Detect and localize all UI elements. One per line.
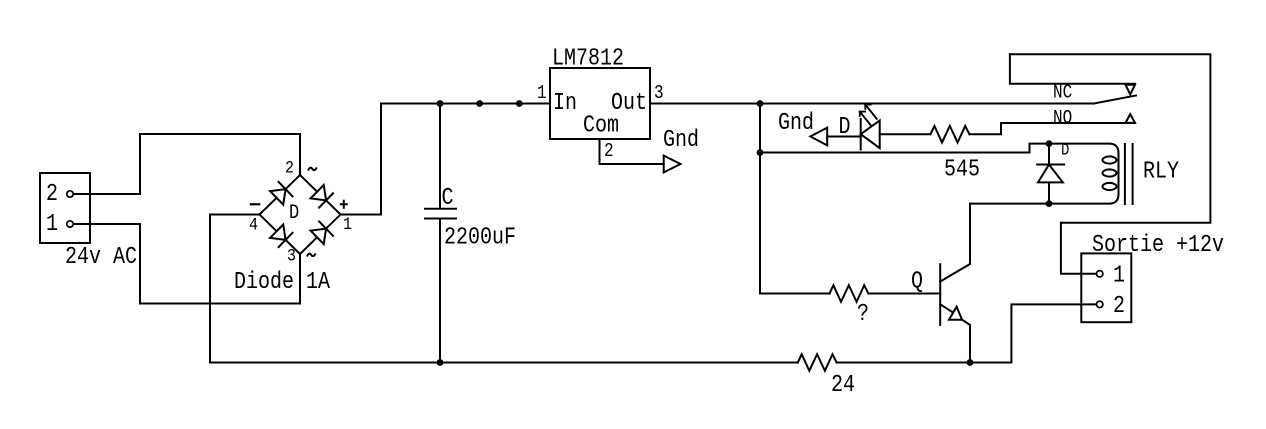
svg-text:NO: NO	[1053, 108, 1072, 130]
svg-text:D: D	[839, 113, 851, 140]
svg-text:545: 545	[944, 156, 980, 183]
svg-text:Sortie +12v: Sortie +12v	[1092, 231, 1224, 258]
svg-text:2: 2	[46, 180, 58, 207]
svg-text:1: 1	[46, 210, 58, 237]
svg-text:24: 24	[831, 371, 855, 398]
svg-text:Gnd: Gnd	[778, 109, 814, 136]
svg-text:2200uF: 2200uF	[444, 224, 516, 251]
svg-text:1: 1	[343, 214, 352, 235]
svg-text:NC: NC	[1053, 82, 1072, 104]
svg-text:In: In	[553, 90, 577, 117]
svg-text:C: C	[442, 184, 454, 211]
svg-text:2: 2	[604, 141, 614, 163]
svg-text:2: 2	[1113, 292, 1125, 319]
svg-text:3: 3	[654, 83, 664, 105]
svg-text:?: ?	[857, 300, 869, 327]
svg-text:2: 2	[285, 157, 294, 178]
svg-text:Q: Q	[911, 268, 923, 295]
svg-text:D: D	[289, 201, 299, 225]
svg-text:LM7812: LM7812	[552, 45, 624, 72]
svg-text:Com: Com	[583, 112, 619, 139]
svg-text:1: 1	[537, 83, 547, 105]
svg-text:Gnd: Gnd	[663, 126, 699, 153]
svg-text:1: 1	[1113, 262, 1125, 289]
svg-text:RLY: RLY	[1143, 158, 1179, 185]
svg-text:24v AC: 24v AC	[65, 243, 137, 270]
svg-text:3: 3	[287, 245, 296, 266]
svg-text:4: 4	[249, 214, 258, 235]
svg-text:Diode 1A: Diode 1A	[234, 268, 331, 295]
svg-text:D: D	[1061, 140, 1069, 160]
